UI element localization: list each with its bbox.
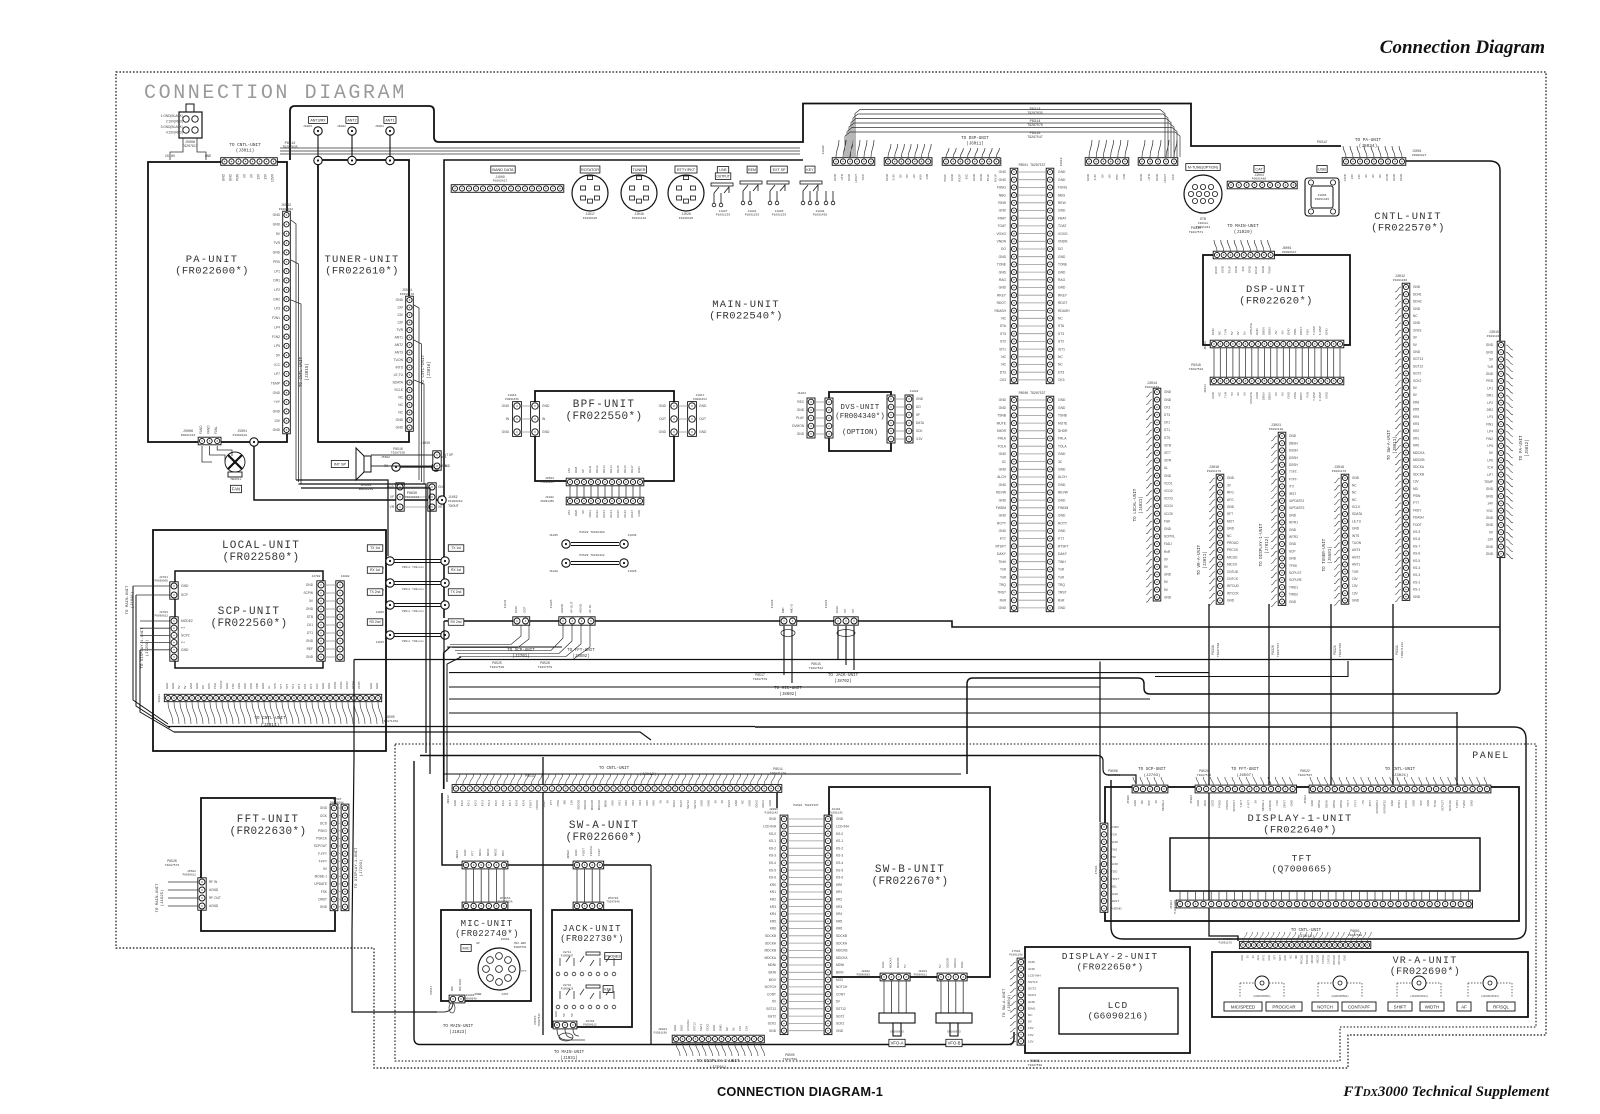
svg-text:VFO-B: VFO-B <box>948 1041 961 1046</box>
svg-text:(J1031): (J1031) <box>560 1056 578 1061</box>
svg-text:KR4: KR4 <box>638 800 642 806</box>
svg-text:J1031: J1031 <box>825 599 828 608</box>
svg-text:KS-2: KS-2 <box>769 846 776 850</box>
svg-text:5V: 5V <box>659 800 663 804</box>
svg-text:+VY: +VY <box>274 400 281 404</box>
svg-text:DT1: DT1 <box>297 683 301 689</box>
svg-text:J8601: J8601 <box>500 938 509 941</box>
fan wires below J4031 <box>168 702 383 724</box>
svg-text:GND: GND <box>306 639 314 643</box>
svg-text:P0095758: P0095758 <box>514 946 527 949</box>
svg-text:TO DISPLAY-2-UNIT: TO DISPLAY-2-UNIT <box>697 1060 740 1064</box>
svg-text:FSK: FSK <box>231 683 235 689</box>
svg-text:VR-A-UNIT: VR-A-UNIT <box>1393 956 1458 967</box>
svg-text:KS-3: KS-3 <box>480 800 484 807</box>
coax connector <box>386 579 394 587</box>
svg-text:P1090210: P1090210 <box>448 500 463 503</box>
svg-text:P1091162: P1091162 <box>1145 386 1160 389</box>
svg-text:DT3: DT3 <box>309 683 313 689</box>
svg-text:J1023: J1023 <box>771 599 774 608</box>
svg-text:LB1: LB1 <box>567 467 571 473</box>
svg-text:P8528 T9318368: P8528 T9318368 <box>579 531 604 534</box>
svg-text:J1041: J1041 <box>504 599 507 608</box>
svg-text:NC: NC <box>398 396 403 400</box>
svg-text:KR5: KR5 <box>836 919 842 923</box>
svg-text:KS-1: KS-1 <box>467 800 471 807</box>
svg-text:F1N2: F1N2 <box>272 335 280 339</box>
svg-text:FOOT: FOOT <box>582 848 586 856</box>
svg-text:RG14: RG14 <box>609 510 613 518</box>
svg-text:(J3013): (J3013) <box>640 772 657 777</box>
svg-text:INT SP: INT SP <box>443 453 453 457</box>
svg-text:DT1: DT1 <box>307 631 313 635</box>
svg-text:UOUT: UOUT <box>1163 174 1167 183</box>
svg-text:KR6: KR6 <box>836 927 842 931</box>
DVS right connector pair <box>887 395 913 443</box>
svg-text:GND: GND <box>1164 527 1172 531</box>
svg-text:T9207565A: T9207565A <box>497 901 512 904</box>
svg-text:FTDX3000 Technical Supplement: FTDX3000 Technical Supplement <box>1342 1084 1549 1100</box>
svg-text:DSP-UNIT: DSP-UNIT <box>1246 284 1306 296</box>
svg-text:DATA: DATA <box>916 421 925 425</box>
svg-text:CK3: CK3 <box>1058 378 1065 382</box>
svg-text:RX 1st: RX 1st <box>451 568 461 572</box>
svg-text:DRST: DRST <box>1282 800 1286 808</box>
svg-text:GND: GND <box>999 255 1007 259</box>
DIN connector RTTY/PKT <box>668 175 704 211</box>
svg-text:MDCKA: MDCKA <box>836 956 848 960</box>
svg-text:CNTL-UNIT: CNTL-UNIT <box>1374 211 1442 223</box>
svg-text:(J2703): (J2703) <box>1144 773 1161 778</box>
svg-text:P8605: P8605 <box>1030 1059 1040 1063</box>
svg-text:SF: SF <box>916 413 920 417</box>
svg-text:KS-1: KS-1 <box>1413 588 1420 592</box>
svg-text:RG17: RG17 <box>630 510 634 518</box>
svg-text:VDN: VDN <box>237 683 241 689</box>
svg-text:STS: STS <box>1164 436 1170 440</box>
svg-text:(FR022600*): (FR022600*) <box>175 266 249 278</box>
svg-text:P1090425: P1090425 <box>583 217 598 220</box>
svg-text:PTT: PTT <box>1413 501 1419 505</box>
svg-text:3V: 3V <box>720 800 724 804</box>
svg-text:SCPLST: SCPLST <box>1441 800 1445 811</box>
svg-text:SCP: SCP <box>1147 800 1151 806</box>
svg-text:J6001: J6001 <box>1282 246 1292 250</box>
svg-text:PRCCK: PRCCK <box>1227 548 1239 552</box>
svg-text:GND: GND <box>999 452 1007 456</box>
svg-text:SCPW: SCPW <box>303 591 313 595</box>
svg-text:T9287568: T9287568 <box>1028 1064 1043 1067</box>
connector J3012 <box>1402 283 1410 600</box>
svg-text:ANT3/RX: ANT3/RX <box>310 118 326 122</box>
wire long bus y659 <box>354 659 1393 661</box>
coax connector <box>314 156 322 164</box>
svg-text:J1016: J1016 <box>634 212 644 216</box>
svg-text:I2CD: I2CD <box>320 821 328 825</box>
wire MIC down 2 <box>791 626 793 683</box>
wire bus y676 <box>1155 661 1348 677</box>
svg-text:UPDATE: UPDATE <box>1249 323 1253 335</box>
svg-text:KR6: KR6 <box>770 927 776 931</box>
svg-text:MDCKA: MDCKA <box>764 956 776 960</box>
svg-text:SCP2: SCP2 <box>181 634 190 638</box>
svg-text:MDNI: MDNI <box>836 963 844 967</box>
svg-text:FTFT-: FTFT- <box>1289 477 1298 481</box>
svg-text:GND: GND <box>999 406 1007 410</box>
svg-text:TO CNTL-UNIT: TO CNTL-UNIT <box>422 354 426 385</box>
connector J1009 band data strip <box>451 185 564 193</box>
svg-text:FAST: FAST <box>502 993 509 996</box>
svg-text:DT1: DT1 <box>1164 428 1170 432</box>
svg-text:SHIFT: SHIFT <box>1394 1005 1407 1010</box>
svg-text:GND: GND <box>1248 265 1252 273</box>
svg-text:3VUS: 3VUS <box>727 800 731 807</box>
svg-text:NC: NC <box>1352 491 1357 495</box>
svg-text:P85xx T93xxxx: P85xx T93xxxx <box>402 566 424 569</box>
svg-text:MODE-2: MODE-2 <box>1161 800 1165 811</box>
svg-text:9V: 9V <box>1236 331 1240 335</box>
wire down x1393 <box>1392 604 1394 785</box>
svg-text:J3001: J3001 <box>1412 149 1422 153</box>
SW-A-UNIT box <box>442 793 777 865</box>
svg-text:CAT: CAT <box>1255 167 1263 171</box>
svg-text:GND: GND <box>1486 516 1494 520</box>
connector J1031 <box>834 617 858 625</box>
svg-text:GND: GND <box>999 209 1007 213</box>
svg-text:MICCK: MICCK <box>1227 563 1238 567</box>
svg-text:GND: GND <box>999 178 1007 182</box>
svg-text:GND: GND <box>637 467 641 473</box>
svg-text:VFO-A: VFO-A <box>891 1041 904 1046</box>
DIN M-TUNE <box>1184 175 1222 213</box>
svg-text:P0090683: P0090683 <box>857 974 871 977</box>
svg-text:(FR022540*): (FR022540*) <box>709 311 783 323</box>
svg-text:STA: STA <box>1000 324 1007 328</box>
svg-text:13V: 13V <box>1028 1039 1034 1043</box>
svg-text:KR1: KR1 <box>1413 436 1419 440</box>
potentiometer (GR0009501) <box>1240 976 1284 998</box>
svg-text:13V: 13V <box>1028 1033 1034 1037</box>
svg-text:J1030: J1030 <box>420 441 430 445</box>
svg-text:CK3: CK3 <box>315 683 319 689</box>
svg-text:GND: GND <box>181 648 189 652</box>
svg-text:LP6: LP6 <box>1487 458 1493 462</box>
svg-text:P8517: P8517 <box>430 985 433 994</box>
fan wires J6001 up <box>1214 240 1271 251</box>
svg-text:GND: GND <box>1413 595 1421 599</box>
svg-text:LP4: LP4 <box>274 325 280 329</box>
svg-text:MDCKA: MDCKA <box>1413 451 1425 455</box>
svg-text:GND: GND <box>1196 800 1200 806</box>
svg-text:GND: GND <box>1426 800 1430 806</box>
svg-text:-5V: -5V <box>1280 392 1284 397</box>
svg-text:GND: GND <box>637 510 641 516</box>
jack EXT SP <box>771 166 788 173</box>
svg-text:DISPLAY-1-UNIT: DISPLAY-1-UNIT <box>1247 813 1352 825</box>
connector J102N <box>832 158 875 166</box>
svg-text:T9287576: T9287576 <box>1197 774 1212 777</box>
svg-text:GND: GND <box>502 430 510 434</box>
svg-text:GND: GND <box>1139 173 1143 181</box>
svg-text:FANL: FANL <box>214 426 218 434</box>
svg-text:(J3016): (J3016) <box>427 361 432 379</box>
svg-text:P8517: P8517 <box>755 673 765 677</box>
wires tuner strip <box>414 305 424 484</box>
SW-B-UNIT box <box>829 787 990 977</box>
wire down x1457 <box>1456 712 1458 785</box>
svg-text:J3019: J3019 <box>1060 157 1063 166</box>
wire long bus y672 <box>449 672 1209 674</box>
svg-text:KR0: KR0 <box>611 800 615 806</box>
svg-text:/TX: /TX <box>1361 800 1365 804</box>
svg-text:PSW: PSW <box>556 800 560 807</box>
wire left bus 1 <box>133 586 168 724</box>
svg-text:T9287542: T9287542 <box>538 1013 541 1027</box>
svg-text:DBSH: DBSH <box>1289 441 1299 445</box>
svg-text:PTT: PTT <box>471 850 475 856</box>
MAIN-UNIT box <box>444 160 803 618</box>
svg-text:KS-2: KS-2 <box>474 800 478 807</box>
svg-text:DRST: DRST <box>1299 327 1303 335</box>
svg-text:TOAT: TOAT <box>1058 224 1067 228</box>
svg-text:GND: GND <box>1227 599 1235 603</box>
svg-text:REW: REW <box>998 201 1007 205</box>
svg-text:TO MAIN-UNIT: TO MAIN-UNIT <box>126 585 130 614</box>
svg-text:TO CNTL-UNIT: TO CNTL-UNIT <box>254 716 286 721</box>
svg-text:MDCKB: MDCKB <box>896 957 900 968</box>
svg-text:KS-4: KS-4 <box>487 800 491 807</box>
svg-text:MODE-1: MODE-1 <box>315 875 328 879</box>
svg-text:KS-7: KS-7 <box>508 800 512 807</box>
DVS-UNIT box <box>829 392 891 451</box>
KEY jack <box>603 986 613 993</box>
svg-text:NC: NC <box>1352 483 1357 487</box>
svg-text:P8529 T9318312: P8529 T9318312 <box>579 554 604 557</box>
svg-text:KS-0: KS-0 <box>836 832 843 836</box>
tuner VF-VR connector pair <box>396 483 436 511</box>
svg-text:M-TUNE(OPTION): M-TUNE(OPTION) <box>1188 165 1218 169</box>
svg-text:GND: GND <box>261 683 265 689</box>
svg-text:GND: GND <box>1227 527 1235 531</box>
svg-text:GND: GND <box>222 173 226 181</box>
connector J2702-J4002 pair <box>317 581 344 661</box>
wire PA bus down x426 <box>299 484 427 753</box>
wire short bus y647 <box>447 646 562 648</box>
svg-text:P1090823: P1090823 <box>561 988 574 991</box>
svg-text:GND: GND <box>1310 800 1314 806</box>
svg-text:CK3: CK3 <box>1000 378 1007 382</box>
svg-text:(J5034): (J5034) <box>1359 144 1377 149</box>
svg-text:KEY: KEY <box>604 987 612 991</box>
svg-text:P1091458: P1091458 <box>813 214 828 217</box>
svg-text:P8516: P8516 <box>393 447 403 451</box>
svg-text:DO: DO <box>916 405 921 409</box>
svg-text:KS-9: KS-9 <box>1413 530 1420 534</box>
svg-text:TO JACK-UNIT: TO JACK-UNIT <box>828 674 859 678</box>
svg-text:13N: 13N <box>925 174 929 180</box>
svg-text:T9287542: T9287542 <box>809 667 824 670</box>
svg-text:CONNECTION DIAGRAM-1: CONNECTION DIAGRAM-1 <box>717 1084 883 1099</box>
VR switch labels <box>1224 1002 1262 1011</box>
svg-text:J6001: J6001 <box>375 125 384 128</box>
svg-text:J4005: J4005 <box>376 611 385 614</box>
svg-text:DBSV: DBSV <box>1261 327 1265 335</box>
svg-text:/UPDATE2: /UPDATE2 <box>1383 800 1387 814</box>
svg-text:GND: GND <box>1289 434 1297 438</box>
svg-text:CONT: CONT <box>836 992 845 996</box>
svg-text:P8521: P8521 <box>1199 769 1209 773</box>
svg-text:TO SCP-UNIT: TO SCP-UNIT <box>507 649 535 653</box>
svg-text:RAG: RAG <box>999 278 1007 282</box>
svg-text:TO MAIN-UNIT: TO MAIN-UNIT <box>443 1025 474 1029</box>
svg-text:J7004: J7004 <box>1304 795 1307 804</box>
DSP-UNIT box <box>1203 255 1350 345</box>
svg-text:(FR022650*): (FR022650*) <box>1076 962 1143 973</box>
svg-text:P1091132: P1091132 <box>632 217 647 220</box>
svg-text:P1091198: P1091198 <box>1009 954 1023 957</box>
svg-text:SCPFIL: SCPFIL <box>1164 535 1175 539</box>
coax connector <box>386 557 394 565</box>
svg-text:SDCKA: SDCKA <box>1413 465 1425 469</box>
svg-text:PSW: PSW <box>1413 494 1420 498</box>
svg-text:DO: DO <box>1001 247 1006 251</box>
svg-text:UL: UL <box>1164 466 1168 470</box>
wire FFT long down <box>352 660 437 1013</box>
potentiometer (JA20031521) <box>1468 976 1512 998</box>
svg-text:TO PA-UNIT: TO PA-UNIT <box>1355 138 1382 143</box>
svg-text:J6012: J6012 <box>1204 341 1207 350</box>
svg-text:GND: GND <box>1289 528 1297 532</box>
svg-text:FTFT: FTFT <box>1354 800 1358 807</box>
svg-text:J3004: J3004 <box>1254 173 1264 177</box>
svg-text:13V: 13V <box>264 173 268 180</box>
svg-text:MIC: MIC <box>781 607 785 613</box>
svg-text:BKIN: BKIN <box>769 971 777 975</box>
connector J0503 <box>566 478 644 486</box>
svg-text:GND: GND <box>1390 800 1394 806</box>
svg-text:P0090612: P0090612 <box>583 1024 597 1027</box>
wires JACK bundle <box>577 869 600 902</box>
svg-text:AGND: AGND <box>209 888 219 892</box>
svg-text:KS-4: KS-4 <box>1413 566 1420 570</box>
svg-text:DTB: DTB <box>1200 217 1206 221</box>
svg-text:PRG: PRG <box>1293 391 1297 398</box>
svg-text:15.8V: 15.8V <box>165 155 176 159</box>
svg-text:GND: GND <box>1058 452 1066 456</box>
svg-text:GND: GND <box>1289 513 1297 517</box>
svg-text:LINE: LINE <box>719 168 727 172</box>
svg-text:P1091342: P1091342 <box>1487 335 1502 338</box>
svg-text:T9287568: T9287568 <box>1217 643 1220 658</box>
svg-text:CK1: CK1 <box>303 683 307 689</box>
svg-text:KS-5: KS-5 <box>494 800 498 807</box>
svg-text:3V: 3V <box>1154 800 1158 804</box>
svg-text:WTR1: WTR1 <box>1289 521 1298 525</box>
svg-text:P85xx T93xxxx: P85xx T93xxxx <box>402 610 424 613</box>
svg-text:3VUS: 3VUS <box>1413 328 1421 332</box>
svg-text:FIN2: FIN2 <box>1486 437 1493 441</box>
svg-text:GND: GND <box>1058 514 1066 518</box>
svg-text:FOOT: FOOT <box>528 800 532 808</box>
svg-text:SGT2: SGT2 <box>699 1023 703 1031</box>
DIN TUNER <box>632 166 647 173</box>
svg-text:TUON: TUON <box>394 358 404 362</box>
svg-text:GND: GND <box>1261 265 1265 273</box>
svg-text:DISPLAY-2-UNIT: DISPLAY-2-UNIT <box>1062 951 1159 962</box>
svg-text:GND: GND <box>1058 468 1066 472</box>
svg-text:FSK: FSK <box>1275 800 1279 806</box>
svg-text:F2N1: F2N1 <box>272 316 280 320</box>
svg-text:EXT SP: EXT SP <box>773 168 786 172</box>
svg-text:SCLK: SCLK <box>394 388 403 392</box>
svg-text:GND: GND <box>999 483 1007 487</box>
connector J8013 <box>462 861 508 869</box>
wire x651 down <box>650 865 652 1044</box>
svg-text:MDNI: MDNI <box>604 800 608 807</box>
svg-text:DBSH: DBSH <box>1317 800 1321 808</box>
svg-text:J1017: J1017 <box>695 394 704 397</box>
svg-text:KR2: KR2 <box>770 898 776 902</box>
svg-text:TRQ: TRQ <box>1058 583 1065 587</box>
svg-text:F-DSP: F-DSP <box>1318 392 1322 401</box>
svg-text:P8526: P8526 <box>540 661 550 665</box>
svg-text:ALCH: ALCH <box>997 475 1006 479</box>
svg-text:P1091176: P1091176 <box>1219 942 1233 945</box>
svg-text:TXOUT: TXOUT <box>448 505 460 509</box>
svg-text:VR: VR <box>438 505 443 509</box>
connector J7003 <box>1195 785 1296 793</box>
svg-text:TFSK: TFSK <box>1289 564 1298 568</box>
svg-text:VF: VF <box>390 495 394 499</box>
svg-text:J8602: J8602 <box>567 850 570 859</box>
svg-text:NBG: NBG <box>1058 193 1066 197</box>
svg-text:ST3: ST3 <box>1000 332 1006 336</box>
svg-text:TO DISPLAY-1-UNIT: TO DISPLAY-1-UNIT <box>1260 523 1264 566</box>
svg-text:TEMP: TEMP <box>1484 480 1493 484</box>
svg-text:GR000953: GR000953 <box>947 1031 961 1034</box>
wire FFT strip to bus <box>455 625 563 651</box>
svg-text:SST12: SST12 <box>766 1007 776 1011</box>
svg-text:ICC: ICC <box>274 363 280 367</box>
svg-text:LP2: LP2 <box>1487 401 1493 405</box>
antenna jack ANT2 <box>346 117 358 124</box>
svg-text:GND: GND <box>1343 955 1347 961</box>
svg-text:P8515: P8515 <box>534 1015 537 1024</box>
svg-text:RxR: RxR <box>1000 598 1007 602</box>
svg-text:GND: GND <box>171 683 175 689</box>
fan wires J8001 <box>1243 932 1371 941</box>
connector J8001 <box>1239 941 1370 948</box>
svg-text:GND: GND <box>321 683 325 689</box>
svg-text:GND: GND <box>396 426 404 430</box>
svg-text:NOTCH: NOTCH <box>765 985 777 989</box>
connector J3021 <box>1278 432 1286 605</box>
svg-text:M5V: M5V <box>501 850 505 856</box>
connector J3001 <box>1342 158 1406 166</box>
wire FFT strip to bus 2 <box>457 625 572 654</box>
svg-text:MIC: MIC <box>463 946 470 950</box>
MIC round connector <box>478 948 520 990</box>
svg-text:GND: GND <box>1058 498 1066 502</box>
svg-text:TO TUNER-UNIT: TO TUNER-UNIT <box>1323 538 1327 571</box>
svg-text:NC: NC <box>1413 314 1418 318</box>
svg-text:PON: PON <box>236 173 240 181</box>
svg-text:TVR: TVR <box>1224 328 1228 335</box>
svg-text:SGT2: SGT2 <box>836 1014 845 1018</box>
SCP-UNIT box <box>175 571 323 668</box>
svg-text:MIC-UNIT: MIC-UNIT <box>461 919 514 929</box>
svg-text:GND: GND <box>797 432 805 436</box>
